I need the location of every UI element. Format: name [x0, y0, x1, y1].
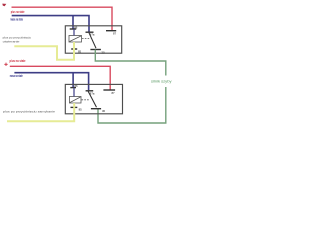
svg-text:86: 86	[74, 84, 78, 88]
pin 85 (K2)	[71, 106, 78, 108]
pin 30 (K1)	[90, 49, 101, 51]
wire green motor to K2 pin30	[98, 87, 166, 123]
svg-text:masa na stałe: masa na stałe	[10, 18, 23, 22]
pin 87 (K2)	[103, 89, 115, 91]
wire yellow K2 pin85 run	[7, 107, 74, 121]
svg-text:87: 87	[112, 91, 116, 95]
pin 87 (K1)	[106, 30, 116, 32]
switch arm K2	[88, 91, 96, 107]
svg-text:masa na stałe: masa na stałe	[10, 74, 23, 78]
svg-text:30: 30	[102, 109, 106, 113]
svg-text:86: 86	[74, 26, 78, 30]
wire pin86 to coil (K1)	[73, 29, 75, 36]
relay K2 box	[65, 84, 122, 113]
pin 86 (K1)	[70, 28, 77, 30]
pin 85 (K1)	[71, 48, 77, 50]
wire yellow K1 pin85 run	[14, 46, 74, 59]
wire masa top blue	[12, 16, 89, 32]
cursor arrow	[2, 4, 6, 7]
svg-text:30: 30	[101, 50, 105, 54]
dashed actuator link K2	[82, 99, 90, 101]
svg-text:silnik szyby: silnik szyby	[151, 80, 172, 84]
switch arm K1	[89, 33, 96, 48]
wire green K1 pin30 to motor	[95, 50, 166, 76]
wire masa second blue	[14, 73, 88, 91]
wire blue branch to pin 86	[72, 16, 74, 29]
wire plus12V top red	[12, 7, 113, 30]
svg-text:87: 87	[113, 31, 117, 35]
junction plus mark	[4, 63, 7, 66]
svg-text:plus po przyciśnięciu zamykan: plus po przyciśnięciu zamykanie	[3, 110, 55, 114]
pin 30 (K2)	[91, 108, 101, 110]
coil K1	[69, 36, 82, 43]
wire yellow coil K1 to pin85	[73, 42, 75, 49]
wire pin86 to coil (K2)	[73, 88, 75, 97]
svg-text:plus na stałe: plus na stałe	[11, 10, 25, 14]
relay K1 box	[65, 26, 121, 53]
pin 86 (K2)	[70, 87, 76, 89]
wire plus12V second red	[10, 66, 110, 89]
wire yellow coil K2 to pin85	[73, 103, 75, 107]
pin 87a (K1)	[86, 31, 94, 33]
dashed actuator link K1	[82, 38, 91, 40]
pin 87a (K2)	[86, 90, 94, 92]
svg-text:plus na stałe: plus na stałe	[10, 59, 26, 63]
svg-text:otwieranie: otwieranie	[3, 39, 20, 43]
svg-text:85: 85	[79, 107, 83, 111]
coil K2	[69, 97, 81, 104]
svg-text:85: 85	[78, 50, 82, 54]
wire blue branch to pin 86 (K2)	[72, 73, 74, 88]
